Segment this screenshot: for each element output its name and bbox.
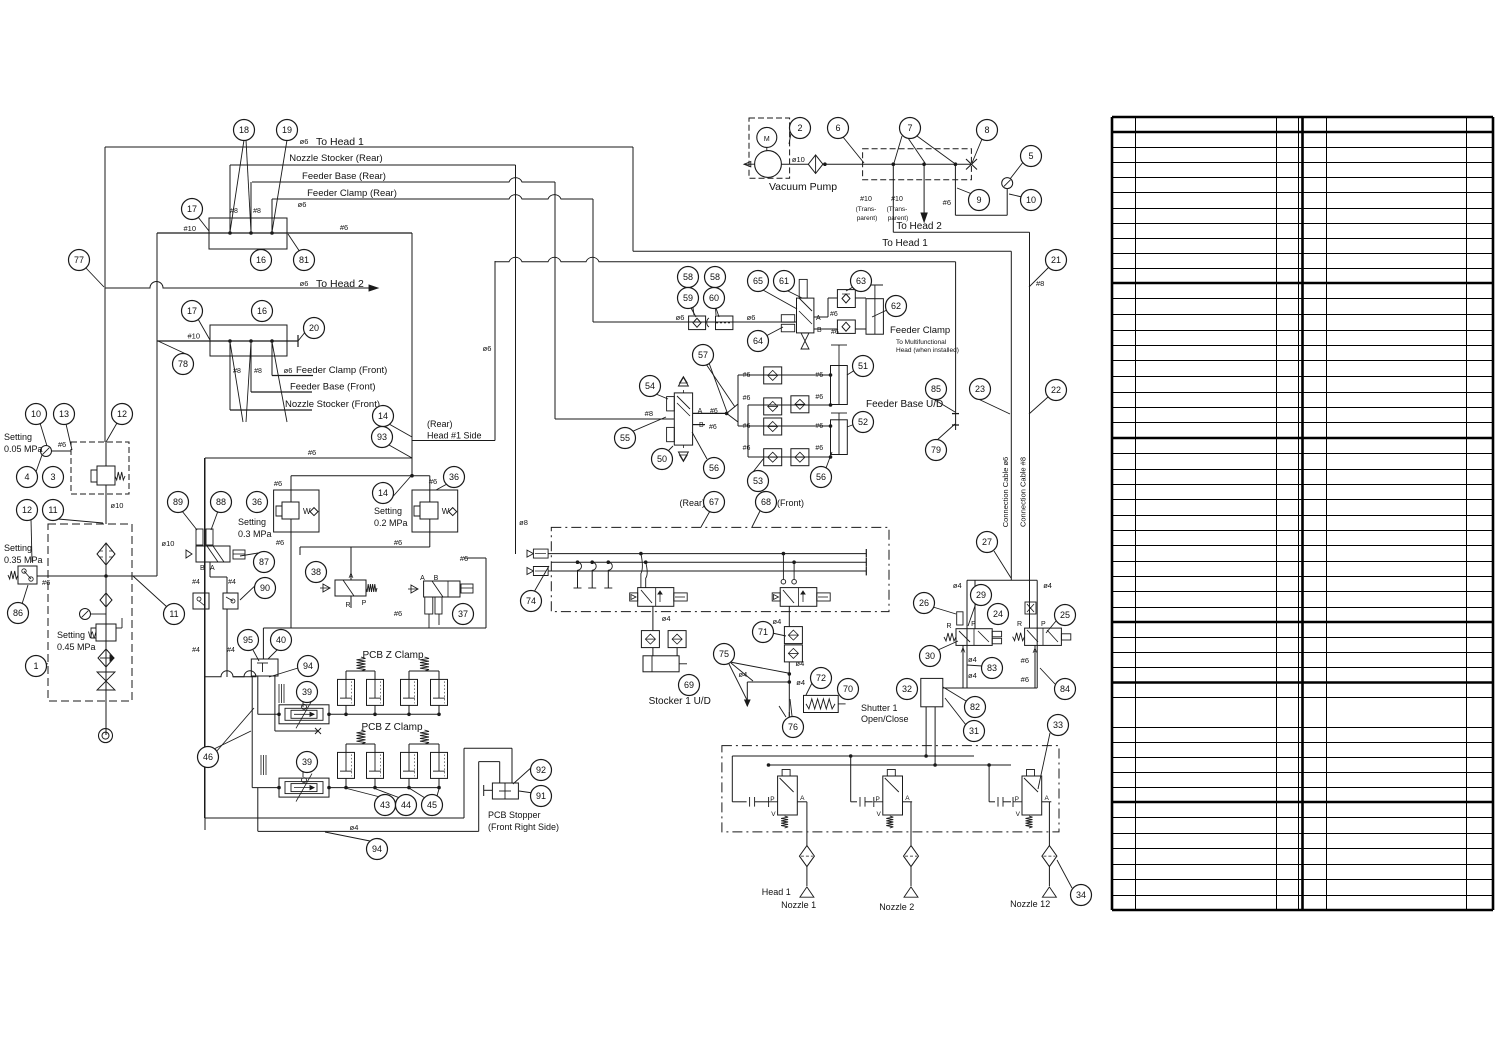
- svg-text:77: 77: [74, 255, 84, 265]
- svg-text:Head (when installed): Head (when installed): [896, 347, 959, 354]
- svg-text:A: A: [1045, 795, 1050, 802]
- svg-text:30: 30: [925, 651, 935, 661]
- svg-text:#6: #6: [815, 394, 823, 401]
- svg-text:17: 17: [187, 306, 197, 316]
- svg-text:#6: #6: [710, 408, 718, 415]
- svg-text:6: 6: [835, 123, 840, 133]
- svg-text:10: 10: [31, 409, 41, 419]
- svg-text:A: A: [210, 565, 215, 572]
- svg-text:Setting: Setting: [57, 630, 85, 640]
- svg-text:Nozzle Stocker (Rear): Nozzle Stocker (Rear): [289, 153, 382, 164]
- svg-text:#6: #6: [429, 477, 437, 486]
- svg-text:86: 86: [13, 608, 23, 618]
- svg-text:19: 19: [282, 125, 292, 135]
- svg-text:Nozzle 1: Nozzle 1: [781, 900, 816, 910]
- svg-text:W: W: [442, 507, 450, 516]
- svg-text:#6: #6: [1021, 675, 1029, 684]
- svg-text:ø8: ø8: [519, 518, 528, 527]
- svg-text:ø6: ø6: [300, 279, 309, 288]
- svg-text:Head #1 Side: Head #1 Side: [427, 431, 482, 441]
- svg-text:ø6: ø6: [483, 344, 492, 353]
- svg-text:55: 55: [620, 433, 630, 443]
- svg-text:ø10: ø10: [792, 155, 805, 164]
- svg-text:0.05 MPa: 0.05 MPa: [4, 444, 43, 454]
- svg-text:23: 23: [975, 384, 985, 394]
- svg-text:Feeder Base (Rear): Feeder Base (Rear): [302, 171, 386, 182]
- svg-text:26: 26: [919, 598, 929, 608]
- svg-text:B: B: [200, 565, 205, 572]
- svg-text:ø4: ø4: [796, 659, 805, 668]
- svg-text:To Head 1: To Head 1: [316, 136, 364, 148]
- svg-text:R: R: [947, 623, 952, 630]
- svg-text:Feeder Base U/D: Feeder Base U/D: [866, 399, 943, 410]
- svg-text:54: 54: [645, 381, 655, 391]
- svg-text:ø4: ø4: [773, 617, 782, 626]
- svg-text:18: 18: [239, 125, 249, 135]
- svg-text:#8: #8: [230, 208, 238, 215]
- svg-text:0.3 MPa: 0.3 MPa: [238, 529, 272, 539]
- svg-text:78: 78: [178, 359, 188, 369]
- svg-text:Nozzle 2: Nozzle 2: [879, 902, 914, 912]
- svg-text:17: 17: [187, 204, 197, 214]
- svg-text:parent): parent): [888, 215, 909, 222]
- svg-text:65: 65: [753, 276, 763, 286]
- svg-text:#8: #8: [253, 208, 261, 215]
- svg-text:25: 25: [1060, 610, 1070, 620]
- svg-text:Nozzle 12: Nozzle 12: [1010, 899, 1050, 909]
- svg-text:W: W: [88, 630, 97, 640]
- svg-text:82: 82: [970, 702, 980, 712]
- svg-text:#10: #10: [187, 332, 200, 341]
- svg-text:B: B: [699, 422, 704, 429]
- svg-text:70: 70: [843, 684, 853, 694]
- svg-text:ø4: ø4: [662, 614, 671, 623]
- svg-text:ø4: ø4: [953, 581, 962, 590]
- svg-text:36: 36: [449, 472, 459, 482]
- svg-text:Connection Cable ø6: Connection Cable ø6: [1001, 457, 1010, 527]
- svg-text:A: A: [816, 315, 821, 322]
- svg-text:#10: #10: [860, 196, 872, 203]
- svg-text:#6: #6: [815, 372, 823, 379]
- svg-text:Shutter 1: Shutter 1: [861, 703, 898, 713]
- svg-text:(Front Right Side): (Front Right Side): [488, 822, 559, 832]
- svg-text:#8: #8: [254, 368, 262, 375]
- svg-text:75: 75: [719, 649, 729, 659]
- svg-text:#4: #4: [228, 579, 236, 586]
- svg-text:Stocker 1 U/D: Stocker 1 U/D: [649, 696, 711, 707]
- svg-text:P: P: [1015, 796, 1019, 803]
- svg-text:M: M: [764, 136, 770, 143]
- svg-text:(Trans-: (Trans-: [856, 206, 877, 213]
- svg-text:To Head 2: To Head 2: [896, 221, 942, 232]
- svg-text:#6: #6: [830, 311, 838, 318]
- svg-text:11: 11: [169, 609, 178, 619]
- svg-text:Connection Cable #8: Connection Cable #8: [1019, 457, 1028, 527]
- svg-text:0.45 MPa: 0.45 MPa: [57, 642, 96, 652]
- svg-text:95: 95: [243, 635, 253, 645]
- svg-text:20: 20: [309, 323, 319, 333]
- svg-text:0.35 MPa: 0.35 MPa: [4, 555, 43, 565]
- svg-text:V: V: [876, 811, 881, 818]
- svg-text:10: 10: [1026, 195, 1036, 205]
- svg-text:#6: #6: [831, 329, 839, 336]
- svg-text:#6: #6: [276, 538, 284, 547]
- svg-text:24: 24: [993, 609, 1003, 619]
- svg-text:ø4: ø4: [739, 670, 748, 679]
- svg-text:P: P: [1041, 621, 1046, 628]
- svg-text:32: 32: [902, 684, 912, 694]
- svg-text:#6: #6: [460, 554, 468, 563]
- svg-text:A: A: [420, 575, 425, 582]
- svg-text:(Rear): (Rear): [427, 419, 453, 429]
- svg-text:V: V: [771, 811, 776, 818]
- svg-text:40: 40: [276, 635, 286, 645]
- svg-text:51: 51: [858, 361, 868, 371]
- svg-text:A: A: [698, 408, 703, 415]
- svg-text:ø4: ø4: [350, 823, 359, 832]
- svg-text:79: 79: [931, 445, 941, 455]
- svg-text:31: 31: [969, 726, 979, 736]
- svg-text:#4: #4: [192, 647, 200, 654]
- svg-text:57: 57: [698, 350, 708, 360]
- svg-text:PCB Z Clamp: PCB Z Clamp: [362, 650, 424, 661]
- svg-text:Feeder Clamp (Rear): Feeder Clamp (Rear): [307, 188, 397, 199]
- svg-text:#4: #4: [192, 579, 200, 586]
- svg-text:50: 50: [657, 454, 667, 464]
- svg-text:Nozzle Stocker (Front): Nozzle Stocker (Front): [285, 399, 380, 410]
- svg-text:62: 62: [891, 301, 901, 311]
- svg-text:71: 71: [758, 627, 768, 637]
- svg-text:85: 85: [931, 384, 941, 394]
- svg-text:#8: #8: [1036, 279, 1044, 288]
- svg-text:Setting: Setting: [374, 506, 402, 516]
- svg-text:Feeder Clamp (Front): Feeder Clamp (Front): [296, 365, 387, 376]
- svg-text:#6: #6: [743, 423, 751, 430]
- svg-text:#6: #6: [274, 479, 282, 488]
- svg-text:#6: #6: [815, 423, 823, 430]
- svg-text:90: 90: [260, 583, 270, 593]
- svg-text:#6: #6: [743, 445, 751, 452]
- svg-text:22: 22: [1051, 385, 1061, 395]
- svg-text:87: 87: [259, 557, 269, 567]
- svg-text:94: 94: [372, 844, 382, 854]
- svg-text:38: 38: [311, 567, 321, 577]
- svg-text:#6: #6: [815, 445, 823, 452]
- svg-text:89: 89: [173, 497, 183, 507]
- svg-text:#8: #8: [645, 409, 653, 418]
- svg-text:To Head 2: To Head 2: [316, 278, 364, 290]
- svg-text:#6: #6: [743, 395, 751, 402]
- svg-text:#4: #4: [227, 647, 235, 654]
- svg-text:ø10: ø10: [111, 501, 124, 510]
- svg-text:9: 9: [976, 195, 981, 205]
- svg-text:58: 58: [683, 272, 693, 282]
- svg-text:#6: #6: [394, 609, 402, 618]
- svg-text:37: 37: [458, 609, 468, 619]
- svg-text:29: 29: [976, 590, 986, 600]
- svg-text:Feeder Base (Front): Feeder Base (Front): [290, 382, 376, 393]
- svg-text:64: 64: [753, 336, 763, 346]
- svg-text:A: A: [905, 795, 910, 802]
- svg-text:#6: #6: [743, 372, 751, 379]
- svg-text:72: 72: [816, 673, 826, 683]
- svg-text:67: 67: [709, 497, 719, 507]
- svg-text:5: 5: [1028, 151, 1033, 161]
- svg-text:63: 63: [856, 276, 866, 286]
- svg-text:W: W: [303, 507, 311, 516]
- svg-text:14: 14: [378, 488, 388, 498]
- svg-text:53: 53: [753, 476, 763, 486]
- svg-text:12: 12: [22, 505, 32, 515]
- svg-text:Feeder Clamp: Feeder Clamp: [890, 325, 950, 336]
- svg-text:56: 56: [816, 472, 826, 482]
- svg-text:#6: #6: [943, 198, 951, 207]
- svg-text:To Head 1: To Head 1: [882, 238, 928, 249]
- svg-text:V: V: [1016, 811, 1021, 818]
- svg-text:46: 46: [203, 752, 213, 762]
- svg-text:33: 33: [1053, 720, 1063, 730]
- svg-text:56: 56: [709, 463, 719, 473]
- svg-text:14: 14: [378, 411, 388, 421]
- svg-text:Setting: Setting: [4, 543, 32, 553]
- svg-text:PCB Stopper: PCB Stopper: [488, 810, 541, 820]
- svg-text:#6: #6: [709, 424, 717, 431]
- svg-text:#6: #6: [340, 223, 348, 232]
- svg-text:#10: #10: [891, 196, 903, 203]
- svg-text:69: 69: [684, 680, 694, 690]
- svg-text:ø6: ø6: [676, 313, 685, 322]
- svg-text:Vacuum Pump: Vacuum Pump: [769, 181, 837, 193]
- svg-text:Open/Close: Open/Close: [861, 714, 909, 724]
- svg-text:ø4: ø4: [796, 678, 805, 687]
- svg-text:(Rear): (Rear): [679, 498, 705, 508]
- svg-text:#6: #6: [394, 538, 402, 547]
- svg-text:Setting: Setting: [238, 517, 266, 527]
- svg-text:52: 52: [858, 417, 868, 427]
- svg-text:P: P: [770, 796, 774, 803]
- svg-text:ø6: ø6: [284, 366, 293, 375]
- svg-text:81: 81: [299, 255, 309, 265]
- svg-text:parent): parent): [857, 215, 878, 222]
- svg-text:74: 74: [526, 596, 536, 606]
- svg-text:P: P: [875, 796, 879, 803]
- svg-text:#6: #6: [58, 440, 66, 449]
- svg-text:#6: #6: [308, 448, 316, 457]
- svg-text:93: 93: [377, 432, 387, 442]
- svg-text:#10: #10: [183, 224, 196, 233]
- svg-text:13: 13: [59, 409, 69, 419]
- svg-text:11: 11: [48, 505, 57, 515]
- svg-text:59: 59: [683, 293, 693, 303]
- svg-text:43: 43: [380, 800, 390, 810]
- svg-text:ø4: ø4: [968, 671, 977, 680]
- svg-text:21: 21: [1051, 255, 1061, 265]
- svg-text:39: 39: [302, 687, 312, 697]
- svg-text:ø6: ø6: [300, 137, 309, 146]
- svg-text:#6: #6: [1021, 656, 1029, 665]
- svg-text:R: R: [345, 602, 350, 609]
- svg-text:2: 2: [797, 123, 802, 133]
- svg-text:68: 68: [761, 497, 771, 507]
- svg-text:88: 88: [216, 497, 226, 507]
- svg-text:1: 1: [33, 661, 38, 671]
- svg-text:ø6: ø6: [747, 313, 756, 322]
- svg-text:B: B: [434, 575, 439, 582]
- svg-text:Setting: Setting: [4, 432, 32, 442]
- svg-text:84: 84: [1060, 684, 1070, 694]
- svg-text:PCB Z Clamp: PCB Z Clamp: [361, 722, 423, 733]
- svg-text:58: 58: [710, 272, 720, 282]
- svg-text:(Front): (Front): [777, 498, 804, 508]
- svg-text:16: 16: [257, 306, 267, 316]
- svg-text:ø10: ø10: [162, 539, 175, 548]
- svg-text:8: 8: [984, 125, 989, 135]
- svg-text:ø4: ø4: [968, 655, 977, 664]
- svg-text:P: P: [971, 621, 976, 628]
- svg-text:36: 36: [252, 497, 262, 507]
- svg-text:91: 91: [536, 791, 546, 801]
- svg-text:12: 12: [117, 409, 127, 419]
- svg-text:7: 7: [907, 123, 912, 133]
- svg-text:ø6: ø6: [298, 200, 307, 209]
- svg-text:45: 45: [427, 800, 437, 810]
- svg-text:(Trans-: (Trans-: [887, 206, 908, 213]
- svg-text:A: A: [800, 795, 805, 802]
- svg-text:ø4: ø4: [1043, 581, 1052, 590]
- svg-text:83: 83: [987, 663, 997, 673]
- svg-text:4: 4: [24, 472, 29, 482]
- svg-text:92: 92: [536, 765, 546, 775]
- svg-text:44: 44: [401, 800, 411, 810]
- svg-text:P: P: [362, 600, 367, 607]
- svg-text:B: B: [817, 327, 822, 334]
- svg-text:61: 61: [779, 276, 789, 286]
- svg-text:34: 34: [1076, 890, 1086, 900]
- svg-text:27: 27: [982, 537, 992, 547]
- svg-text:0.2 MPa: 0.2 MPa: [374, 518, 408, 528]
- svg-text:94: 94: [303, 661, 313, 671]
- svg-text:#6: #6: [42, 578, 50, 587]
- svg-text:To Multifunctional: To Multifunctional: [896, 339, 947, 346]
- svg-text:60: 60: [709, 293, 719, 303]
- svg-text:A: A: [349, 573, 354, 580]
- svg-text:76: 76: [788, 722, 798, 732]
- svg-text:Head 1: Head 1: [762, 887, 791, 897]
- svg-text:3: 3: [50, 472, 55, 482]
- svg-text:16: 16: [256, 255, 266, 265]
- svg-text:R: R: [1017, 621, 1022, 628]
- svg-text:39: 39: [302, 757, 312, 767]
